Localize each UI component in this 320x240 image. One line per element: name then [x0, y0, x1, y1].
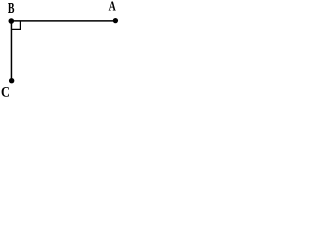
- node A (dot): [113, 18, 118, 23]
- label B: [8, 3, 14, 13]
- node C (dot): [9, 78, 14, 83]
- right-angle marker at B: [11, 21, 20, 30]
- node B (dot): [9, 18, 15, 24]
- label C: [2, 87, 9, 97]
- wire segment BA (horizontal line): [11, 20, 115, 22]
- label A: [109, 2, 116, 11]
- wire segment BC (vertical line): [10, 21, 12, 81]
